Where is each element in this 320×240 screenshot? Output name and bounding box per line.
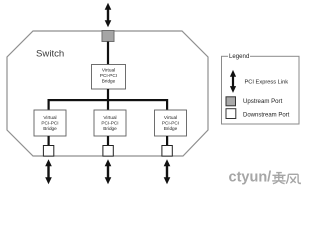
svg-text:PCI-PCI: PCI-PCI	[162, 121, 179, 126]
PCI Express link arrow (bottom middle)	[105, 159, 112, 184]
PCI Express link arrow (bottom right)	[164, 159, 171, 184]
svg-text:Virtual: Virtual	[103, 115, 116, 120]
virtual PCI-PCI bridge (downstream right)	[155, 110, 187, 136]
svg-text:Bridge: Bridge	[102, 79, 116, 84]
PCI Express link arrow (top, upstream)	[105, 3, 112, 27]
virtual PCI-PCI bridge (downstream left)	[34, 110, 66, 136]
svg-text:PCI-PCI: PCI-PCI	[101, 121, 118, 126]
wire: upstream port to top bridge	[107, 42, 109, 65]
svg-text:Virtual: Virtual	[164, 115, 177, 120]
upstream port (gray square on top edge)	[102, 31, 114, 42]
svg-text:Virtual: Virtual	[43, 115, 56, 120]
svg-text:Upstream Port: Upstream Port	[243, 98, 283, 105]
virtual PCI-PCI bridge (downstream middle)	[94, 110, 126, 136]
switch outline	[7, 31, 208, 156]
wire: right bridge to downstream port	[166, 136, 168, 145]
legend downstream port swatch	[226, 109, 236, 119]
legend PCI Express link arrow	[230, 70, 236, 93]
svg-text:PCI Express Link: PCI Express Link	[245, 79, 289, 85]
svg-text:PCI-PCI: PCI-PCI	[41, 121, 58, 126]
wire: bus drop to right bridge	[166, 99, 168, 110]
downstream port middle	[103, 146, 113, 157]
watermark glyph 风 (drawn paths)	[286, 174, 300, 183]
wire: left bridge to downstream port	[48, 136, 50, 145]
legend title background chip	[228, 52, 250, 61]
virtual PCI-PCI bridge (upstream)	[92, 65, 126, 90]
wire: internal horizontal bus	[48, 99, 169, 101]
svg-text:Bridge: Bridge	[103, 126, 117, 131]
svg-text:ctyun/: ctyun/	[229, 170, 272, 186]
wire: top bridge down to internal bus	[107, 89, 109, 110]
svg-text:Downstream Port: Downstream Port	[243, 113, 290, 119]
svg-text:Switch: Switch	[36, 49, 64, 60]
downstream port left (white square on bottom edge)	[43, 146, 53, 157]
svg-text:PCI-PCI: PCI-PCI	[100, 73, 117, 78]
downstream port right	[162, 146, 172, 157]
PCI Express link arrow (bottom left)	[45, 159, 52, 184]
svg-text:Bridge: Bridge	[164, 126, 178, 131]
watermark glyph 乘 (drawn paths)	[272, 172, 285, 183]
legend box	[222, 56, 300, 124]
wire: bus drop to left bridge	[48, 99, 50, 110]
svg-text:Virtual: Virtual	[102, 68, 115, 73]
svg-text:Legend: Legend	[229, 53, 249, 60]
wire: middle bridge to downstream port	[107, 136, 109, 145]
legend upstream port swatch	[226, 97, 236, 106]
svg-text:Bridge: Bridge	[43, 126, 57, 131]
